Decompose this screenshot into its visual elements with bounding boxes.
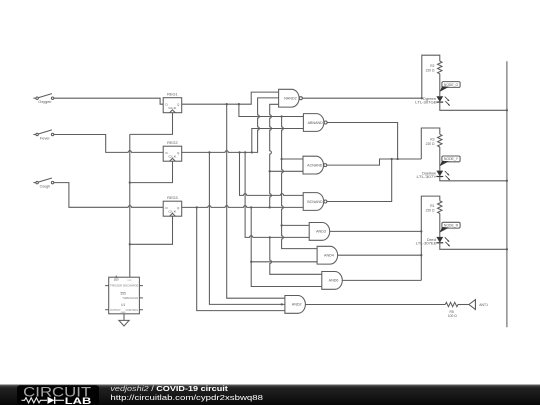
junction B V3 bbox=[208, 151, 210, 153]
svg-text:GND: GND bbox=[121, 312, 126, 314]
junction A at branch bbox=[238, 103, 240, 105]
svg-text:OUTPUT: OUTPUT bbox=[110, 308, 121, 312]
switch SW1 Oxygen bbox=[33, 94, 53, 105]
wire BCNAND output bbox=[327, 159, 392, 202]
wire Dred cathode bbox=[440, 243, 507, 250]
NAND gate ACNAND bbox=[303, 156, 327, 174]
svg-text:CONTROL: CONTROL bbox=[126, 308, 139, 312]
flag NODE_G bbox=[440, 82, 461, 92]
resistor R2 220 bbox=[426, 61, 442, 74]
junction green anode bbox=[421, 97, 423, 99]
antenna ANT1 bbox=[469, 299, 488, 310]
ground bbox=[119, 314, 129, 326]
CircuitLab logo bbox=[22, 384, 92, 405]
switch SW2 Fever bbox=[33, 130, 53, 141]
svg-text:ACNAND: ACNAND bbox=[307, 163, 323, 167]
resistor R5 label bbox=[448, 310, 457, 318]
flag NODE_R bbox=[440, 222, 461, 232]
wire A to ABNAND in1 bbox=[239, 104, 304, 116]
junction C AND4 in2 bbox=[250, 261, 252, 263]
D flip-flop REG2 bbox=[163, 141, 182, 161]
svg-text:R2: R2 bbox=[430, 64, 434, 68]
junction A at V1 bbox=[226, 103, 228, 105]
svg-text:R3: R3 bbox=[430, 137, 434, 141]
wire A to ACNAND in1 bbox=[282, 158, 303, 160]
svg-text:http://circuitlab.com/cypdr2xs: http://circuitlab.com/cypdr2xsbwq88 bbox=[110, 395, 263, 402]
wire R5 to ANT1 bbox=[458, 304, 469, 306]
svg-text:Oxygen: Oxygen bbox=[38, 100, 51, 104]
svg-text:NAND2: NAND2 bbox=[284, 97, 297, 101]
flag NODE_Y bbox=[440, 156, 461, 166]
junction clock REG2 bbox=[129, 181, 131, 183]
wire green riser bbox=[422, 55, 440, 98]
svg-text:Cough: Cough bbox=[40, 185, 51, 189]
LED Dred bbox=[416, 237, 450, 246]
wire net B from REG2 Q bbox=[182, 98, 279, 152]
svg-text:220 Ω: 220 Ω bbox=[426, 208, 435, 212]
svg-text:DISCHARGE: DISCHARGE bbox=[123, 284, 139, 288]
switch SW3 Cough bbox=[33, 178, 53, 189]
junction A ACNAND in1 bbox=[280, 158, 282, 160]
wire Dyellow cathode bbox=[440, 177, 507, 181]
svg-text:VCC: VCC bbox=[127, 280, 132, 282]
wire C to ACNAND in2 bbox=[270, 170, 303, 172]
junction yellow BCNAND bbox=[391, 158, 393, 160]
wire net A from REG1 Q bbox=[182, 92, 279, 104]
svg-text:U1: U1 bbox=[121, 303, 125, 307]
svg-text:CLK: CLK bbox=[168, 106, 176, 110]
wire R2 to Dgreen bbox=[439, 74, 441, 96]
resistor R5 zigzag bbox=[445, 302, 458, 306]
wire Oxygen to REG1 D bbox=[54, 98, 163, 104]
junction C ACNAND in2 bbox=[269, 170, 271, 172]
svg-text:NODE_G: NODE_G bbox=[444, 83, 459, 87]
svg-text:555: 555 bbox=[121, 291, 127, 295]
wire yellow riser bbox=[421, 128, 440, 159]
svg-text:REG2: REG2 bbox=[167, 141, 178, 145]
junction red AND3 bbox=[420, 230, 422, 232]
LED Dgreen bbox=[415, 96, 450, 105]
svg-text:AND6: AND6 bbox=[329, 279, 339, 283]
svg-text:NODE_R: NODE_R bbox=[444, 224, 459, 228]
wire Dgreen cathode bbox=[440, 102, 507, 110]
junction C branch down bbox=[250, 206, 252, 208]
wire C branch to AND6 in2 bbox=[251, 262, 322, 287]
junction B V5 bbox=[244, 151, 246, 153]
NAND gate ABNAND bbox=[303, 114, 327, 132]
junction B V4 bbox=[238, 151, 240, 153]
wire A vertical V1 bbox=[227, 104, 285, 298]
svg-text:AND4: AND4 bbox=[324, 254, 334, 258]
junction yellow ABNAND bbox=[396, 158, 398, 160]
svg-text:ABNAND: ABNAND bbox=[308, 121, 324, 125]
wire ACNAND output bbox=[327, 159, 422, 165]
junction red AND4 bbox=[420, 254, 422, 256]
resistor R3 220 bbox=[426, 134, 442, 147]
wire ABNAND output bbox=[327, 123, 398, 160]
svg-text:R5: R5 bbox=[449, 310, 453, 314]
svg-text:NODE_Y: NODE_Y bbox=[444, 157, 459, 161]
wire Fever to REG2 D bbox=[54, 135, 163, 153]
wire REG1 CLK bbox=[130, 113, 173, 135]
junction clock REG3 bbox=[129, 243, 131, 245]
svg-text:REG3: REG3 bbox=[167, 196, 178, 200]
wire B to ABNAND in2 bbox=[252, 129, 304, 153]
footer bar bbox=[0, 384, 540, 405]
wire net C from REG3 Q bbox=[182, 206, 304, 208]
IC U1 555 timer bbox=[105, 276, 143, 315]
D flip-flop REG1 bbox=[163, 93, 182, 113]
junction A V2 start bbox=[280, 115, 282, 117]
wire REG3 CLK bbox=[130, 216, 173, 244]
wire B vertical V4 to BCNAND in1 bbox=[240, 152, 304, 195]
svg-text:AND3: AND3 bbox=[316, 230, 326, 234]
svg-text:THRESHOLD: THRESHOLD bbox=[122, 296, 138, 300]
junction red rail bbox=[506, 248, 508, 250]
wire NAND2 output to green bbox=[302, 97, 422, 99]
svg-text:CLK: CLK bbox=[168, 154, 176, 158]
AND gate AND3 bbox=[309, 223, 329, 241]
wire cathode rail bbox=[506, 61, 508, 327]
AND gate AND4 bbox=[317, 246, 338, 264]
wire R1 to Dred bbox=[439, 214, 441, 237]
wire AND2 output to R5 bbox=[305, 304, 445, 306]
svg-text:LTL-307Y: LTL-307Y bbox=[417, 175, 438, 179]
svg-text:vedjoshi2 / COVID-19 circuit: vedjoshi2 / COVID-19 circuit bbox=[110, 386, 228, 393]
junction C NAND2 vert bbox=[269, 206, 271, 208]
NAND gate BCNAND bbox=[303, 193, 327, 211]
junction B branch AND3 in2 bbox=[269, 236, 271, 238]
LED Dyellow bbox=[417, 171, 450, 180]
svg-text:220 Ω: 220 Ω bbox=[426, 69, 435, 73]
wire REG2 CLK bbox=[130, 161, 173, 182]
wire B vertical V5 to AND3 in2 bbox=[245, 152, 309, 237]
junction C V6 bbox=[196, 206, 198, 208]
wire A vertical V2 bbox=[282, 117, 318, 249]
svg-text:220 Ω: 220 Ω bbox=[426, 142, 435, 146]
AND gate AND2 bbox=[285, 296, 306, 314]
wire red riser bbox=[421, 196, 440, 280]
AND gate AND6 bbox=[322, 272, 343, 290]
wire A to AND3 in1 bbox=[282, 224, 310, 226]
svg-text:R1: R1 bbox=[430, 204, 434, 208]
svg-text:CLK: CLK bbox=[168, 209, 176, 213]
svg-text:LTL-307EE: LTL-307EE bbox=[416, 241, 438, 245]
D flip-flop REG3 bbox=[163, 196, 182, 216]
junction green rail bbox=[506, 109, 508, 111]
svg-text:BCNAND: BCNAND bbox=[307, 200, 323, 204]
junction A AND3 in1 bbox=[280, 224, 282, 226]
wire R3 to Dyellow bbox=[439, 147, 441, 171]
wire C vertical V6 to AND2 in3 bbox=[197, 207, 285, 310]
svg-text:100 Ω: 100 Ω bbox=[448, 314, 457, 318]
wire B vertical V3 to AND2 in2 bbox=[209, 152, 285, 304]
svg-text:AND2: AND2 bbox=[292, 303, 302, 307]
svg-text:TRIGGER: TRIGGER bbox=[110, 284, 122, 288]
wire AND3 output bbox=[330, 230, 422, 232]
wire clock vertical bbox=[129, 134, 131, 277]
junction yellow rail bbox=[506, 180, 508, 182]
junction B ABNAND bbox=[251, 151, 253, 153]
svg-text:Fever: Fever bbox=[40, 137, 51, 141]
svg-text:ANT1: ANT1 bbox=[479, 303, 488, 307]
wire C up to NAND2 in3 bbox=[270, 104, 279, 207]
wire B branch to AND6 in1 bbox=[270, 237, 322, 274]
svg-text:RST: RST bbox=[114, 278, 120, 282]
NAND gate NAND2 bbox=[279, 89, 303, 107]
wire C branch to AND4 in2 bbox=[251, 207, 317, 261]
junction AND2 in2 pin bbox=[281, 303, 283, 305]
resistor R1 220 bbox=[426, 201, 442, 214]
wire Cough to REG3 D bbox=[54, 183, 163, 208]
svg-text:LTL-307GE: LTL-307GE bbox=[415, 101, 437, 105]
wire AND4 output bbox=[338, 254, 422, 256]
wire AND6 output bbox=[342, 279, 421, 281]
svg-text:LAB: LAB bbox=[65, 396, 92, 405]
svg-text:REG1: REG1 bbox=[167, 93, 178, 97]
